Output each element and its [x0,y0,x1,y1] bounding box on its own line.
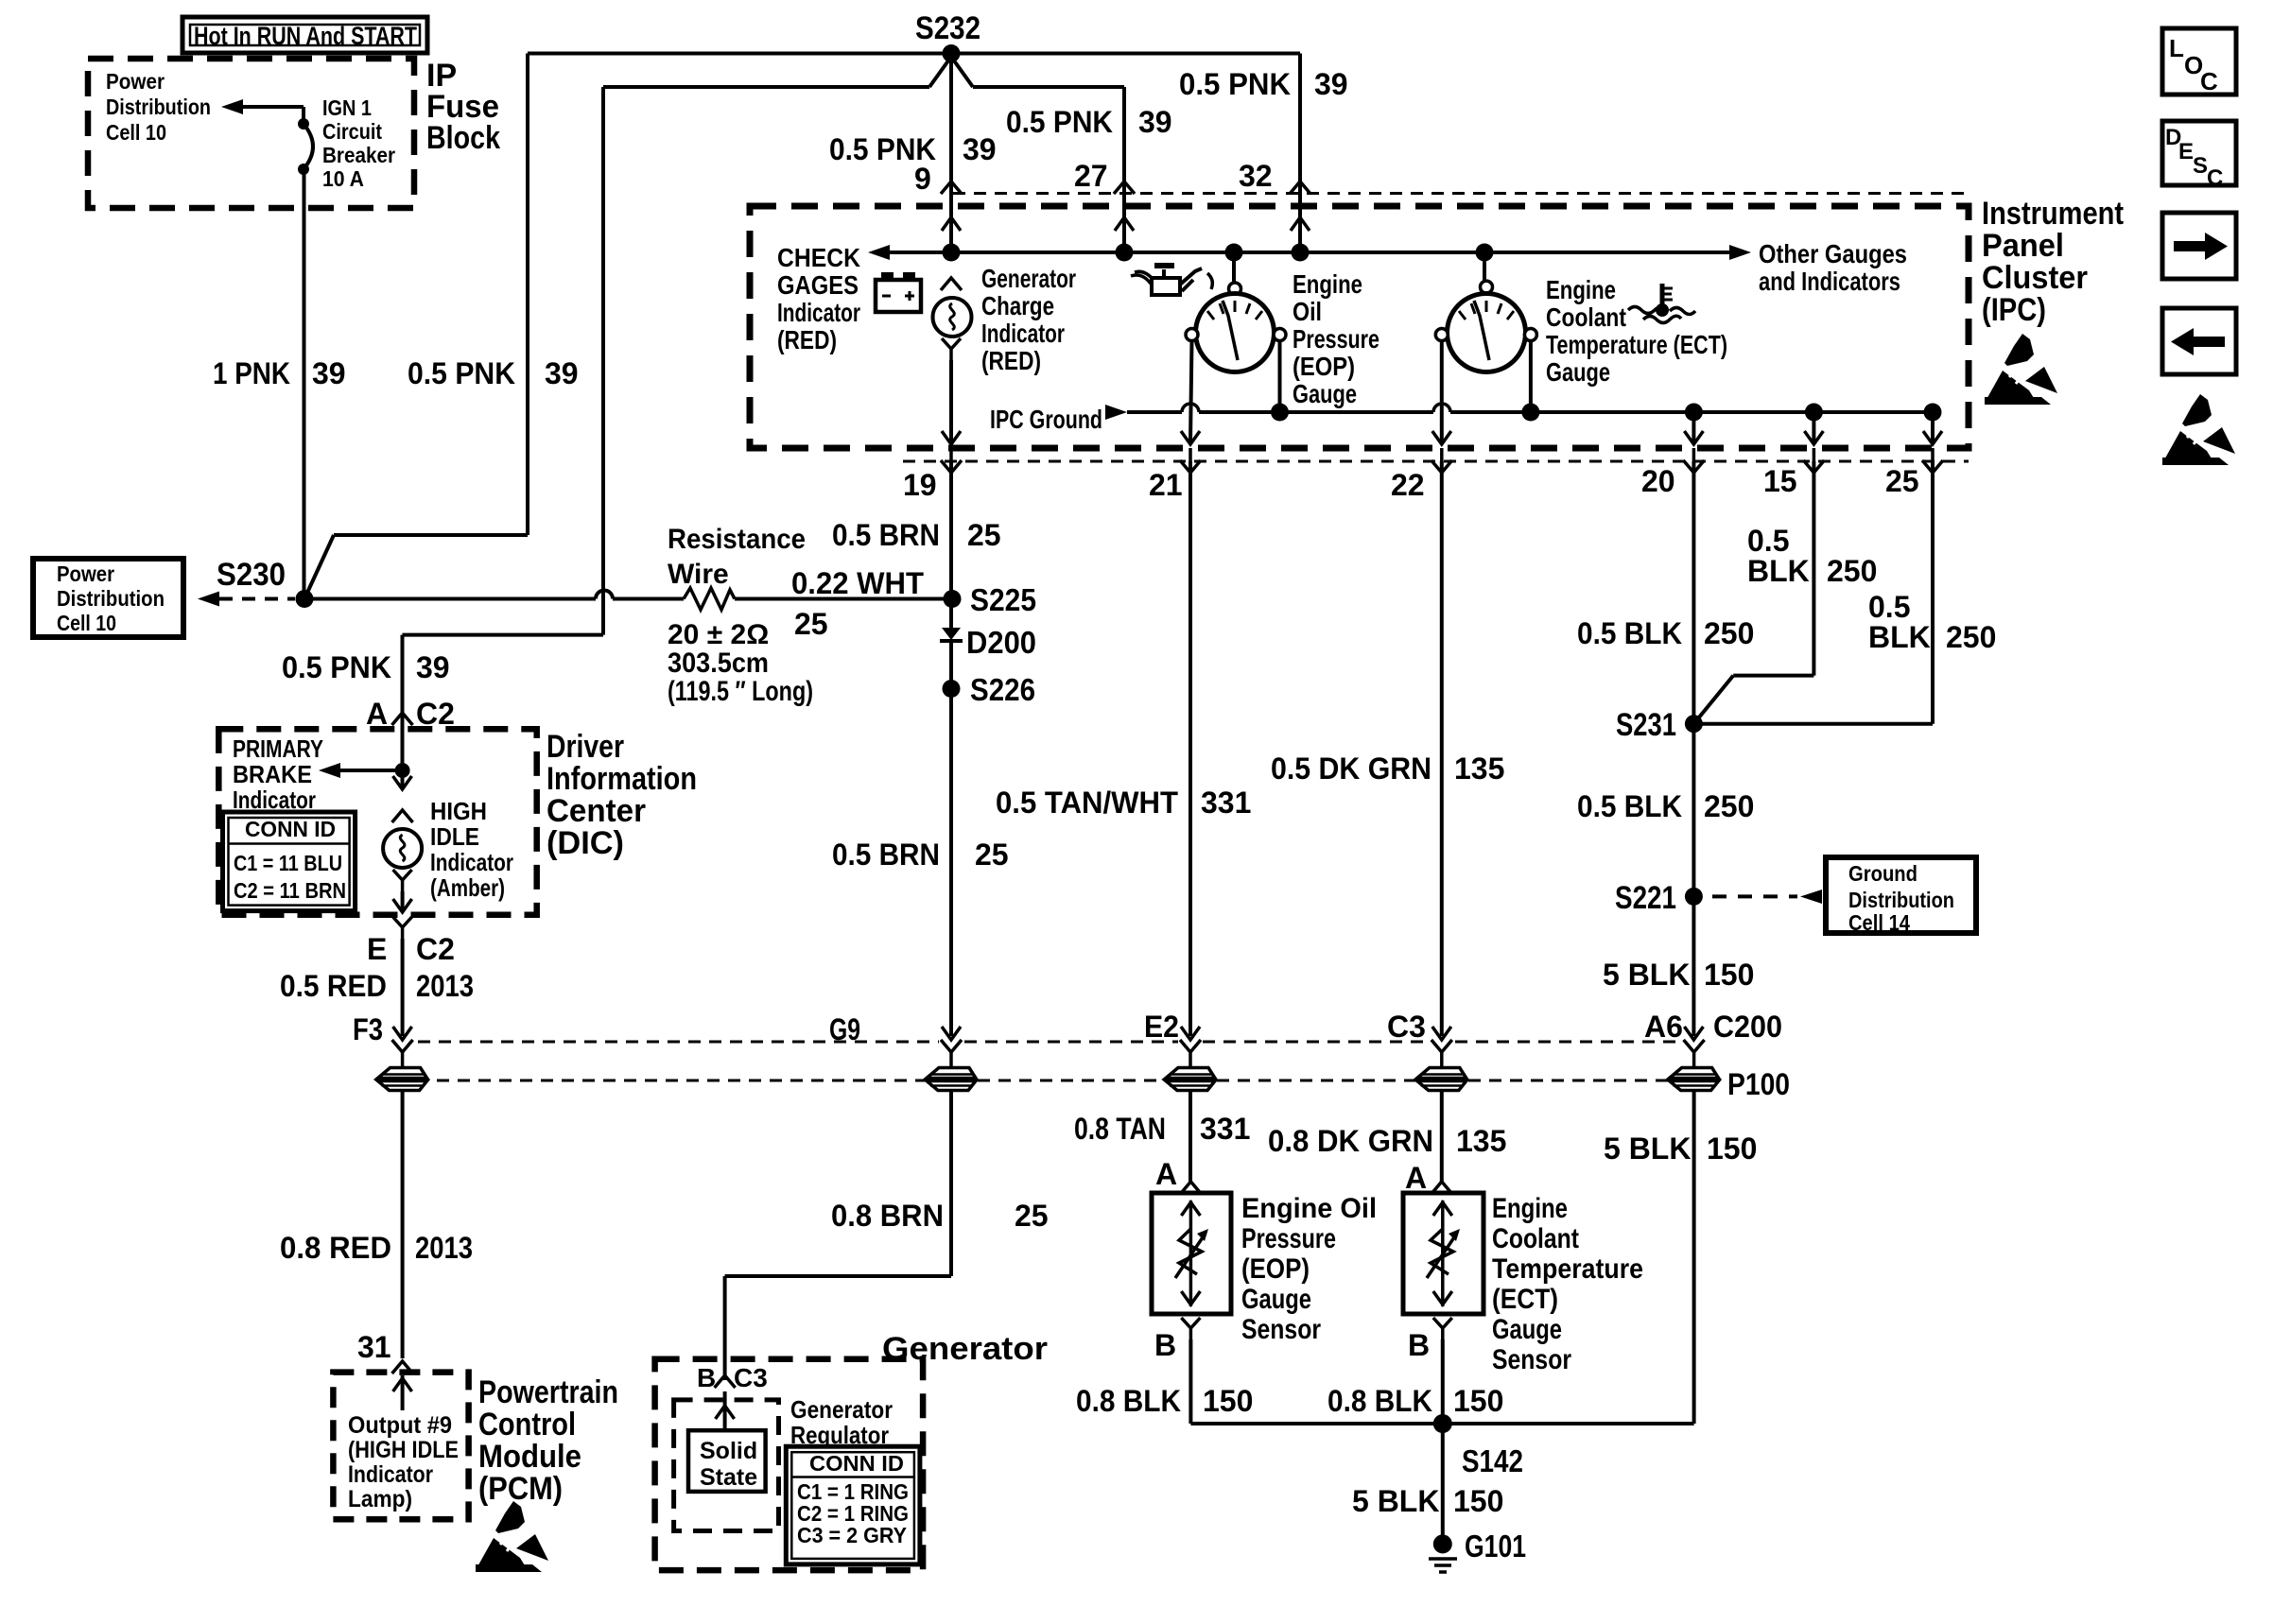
svg-text:C3: C3 [734,1363,768,1392]
svg-text:0.8 BLK: 0.8 BLK [1327,1384,1432,1418]
battery icon (check gages) [876,272,921,312]
connector C200 dashed line [418,1041,1682,1044]
svg-text:G101: G101 [1465,1529,1526,1564]
label 0.5 DK GRN 135 [1271,752,1504,786]
connector chevron A (EOP) [1180,1182,1201,1194]
svg-text:150: 150 [1453,1484,1503,1518]
node bus junction ECT [1476,244,1494,262]
label 0.5 PNK 39 (pin 9) [829,132,997,166]
svg-text:0.5 DK GRN: 0.5 DK GRN [1271,752,1431,786]
svg-text:0.5 PNK: 0.5 PNK [1179,67,1291,101]
label 0.5 BLK 250 (pin 25) [1868,590,1996,654]
svg-text:331: 331 [1201,786,1251,820]
IPC bottom connector dashed line [903,460,1969,463]
label Output #9 HIGH IDLE Indicator Lamp [348,1412,459,1512]
label Engine Oil Pressure (EOP) Gauge [1293,269,1379,408]
wire ground to pin 15 [1804,404,1823,445]
svg-text:E: E [2178,139,2194,164]
svg-text:0.8 TAN: 0.8 TAN [1074,1112,1166,1146]
svg-text:C200: C200 [1713,1010,1782,1044]
svg-text:(HIGH IDLE: (HIGH IDLE [348,1437,459,1463]
svg-text:0.8 BLK: 0.8 BLK [1076,1384,1181,1418]
svg-text:Temperature (ECT): Temperature (ECT) [1546,330,1727,359]
svg-text:State: State [700,1464,757,1491]
svg-text:5 BLK: 5 BLK [1352,1484,1439,1518]
svg-text:(RED): (RED) [981,346,1041,375]
wire 0.5 BRN 25 pin 19 to S225 [949,461,953,599]
wire 0.8 RED 2013 to PCM [401,1090,405,1358]
svg-text:303.5cm: 303.5cm [668,648,769,679]
IPC top connector dashed line [953,192,1969,195]
ECT gauge (IPC) [1435,252,1536,372]
wire EOP gauge left pin to pin 21 [1181,341,1200,445]
label A C2 [366,697,455,731]
wire 0.5 PNK 39 to pin 9 [949,54,953,253]
svg-text:Breaker: Breaker [322,143,395,167]
next-page arrow box [2162,213,2236,279]
wire pin 9 into IPC with up arrow [942,217,961,231]
wire 0.8 BRN 25 to generator [725,1090,951,1380]
label 0.22 WHT 25 [791,566,924,641]
svg-text:IPC Ground: IPC Ground [990,405,1102,434]
svg-text:Other Gauges: Other Gauges [1759,239,1907,268]
svg-text:25: 25 [975,838,1009,872]
svg-text:331: 331 [1200,1112,1250,1146]
svg-text:A: A [366,697,388,731]
connector P100 grommet (A6) [1670,1052,1719,1091]
label Powertrain Control Module (PCM) [478,1374,618,1507]
IP Fuse Block dashed box [88,59,414,208]
svg-text:Gauge: Gauge [1241,1284,1311,1315]
Powertrain Control Module dashed box [333,1373,468,1520]
connector P100 grommet (F3) [378,1052,427,1091]
svg-text:Cell 14: Cell 14 [1848,910,1910,935]
svg-text:A: A [1405,1161,1427,1195]
wire 0.5 TAN/WHT 331 [1181,461,1200,1040]
svg-text:31: 31 [357,1330,391,1364]
svg-text:C3: C3 [1387,1010,1426,1044]
node S230 junction [296,590,314,608]
label Resistance Wire [668,524,806,590]
wire ECT gauge left pin to pin 22 [1432,341,1451,445]
label pin 22 [1391,468,1425,502]
svg-text:0.5 PNK: 0.5 PNK [1006,105,1113,139]
connector chevron B (ECT) [1433,1318,1452,1339]
connector chevron pin 25 [1922,448,1943,473]
svg-text:B: B [697,1363,716,1392]
label pin 31 [357,1330,391,1364]
label resistance value [668,619,813,707]
svg-text:C1 = 11 BLU: C1 = 11 BLU [234,851,342,875]
svg-text:0.8 BRN: 0.8 BRN [831,1199,944,1233]
connector chevron B C3 [715,1375,736,1388]
svg-text:C2: C2 [416,932,455,966]
wire S232 diagonal to left branch [603,57,951,87]
generator charge indicator lamp [933,278,972,444]
svg-text:Generator: Generator [981,264,1076,293]
svg-text:Wire: Wire [668,559,729,590]
label 5 BLK 150 (below P100) [1604,1132,1757,1166]
Engine Oil Pressure EOP Gauge Sensor box [1152,1193,1231,1314]
svg-text:Coolant: Coolant [1546,302,1626,332]
node bus junction pin32 [1292,244,1310,262]
svg-text:0.8 DK GRN: 0.8 DK GRN [1268,1124,1433,1158]
svg-text:S221: S221 [1615,880,1676,916]
label IPC Ground [990,405,1102,434]
svg-text:25: 25 [1885,464,1919,498]
label A6 C200 [1644,1010,1782,1044]
svg-text:27: 27 [1074,159,1108,193]
label Power Distribution Cell 10 (fuse block) [106,69,211,145]
svg-text:0.5 BRN: 0.5 BRN [832,838,940,872]
connector chevron C3 [1431,1040,1452,1052]
ESD symbol under IPC label [1985,334,2057,405]
wire ground to pin 25 [1923,404,1942,445]
svg-text:Gauge: Gauge [1546,357,1610,387]
connector chevron pin 22 [1431,448,1452,473]
node S225 junction [944,582,1037,617]
svg-text:0.5 PNK: 0.5 PNK [282,650,391,684]
svg-text:25: 25 [967,518,1001,552]
connector chevron pin 15 [1803,448,1824,473]
IPC ground bus wire [1105,404,1933,420]
svg-text:Sensor: Sensor [1492,1344,1571,1375]
svg-text:Generator: Generator [790,1395,893,1424]
svg-text:C3 = 2 GRY: C3 = 2 GRY [797,1523,907,1547]
svg-text:Cell 10: Cell 10 [106,120,166,145]
svg-text:(EOP): (EOP) [1293,352,1355,381]
svg-text:Charge: Charge [981,291,1054,320]
connector chevron F3 [392,1040,413,1052]
svg-text:Indicator: Indicator [981,319,1065,348]
svg-text:5 BLK: 5 BLK [1603,958,1690,992]
label 0.8 RED 2013 [280,1231,473,1265]
node bus junction pin9 [943,244,961,262]
label pin 9 [914,162,931,196]
connector P100 grommet (C3) [1417,1052,1466,1091]
svg-text:Block: Block [426,120,500,156]
wire 0.8 BLK 150 (EOP) [1189,1339,1192,1424]
svg-text:C: C [2207,165,2223,191]
label 0.5 PNK 39 (pin 32) [1179,67,1348,101]
svg-text:D200: D200 [966,625,1036,660]
Power Distribution Cell 10 box [33,559,183,637]
connector chevron pin 20 [1683,448,1704,473]
CONN ID box (DIC) [223,812,356,911]
svg-text:(Amber): (Amber) [430,873,505,902]
svg-text:0.5 RED: 0.5 RED [280,969,387,1003]
IPC internal bus wire [889,251,1730,254]
wire into solid state regulator [716,1391,735,1430]
svg-text:22: 22 [1391,468,1425,502]
svg-text:Temperature: Temperature [1492,1253,1643,1285]
svg-text:0.5 TAN/WHT: 0.5 TAN/WHT [996,786,1178,820]
svg-text:(ECT): (ECT) [1492,1284,1558,1315]
wire 5 BLK 150 A6 to S142 [1692,1090,1696,1424]
svg-text:Gauge: Gauge [1492,1314,1562,1345]
connector P100 dashed line [437,1080,1668,1082]
svg-text:L: L [2169,34,2184,62]
label F3 [353,1012,383,1046]
label A (ECT sensor) [1405,1161,1427,1195]
label Engine Coolant Temperature (ECT) Gauge Sensor [1492,1193,1643,1375]
svg-text:B: B [1408,1328,1430,1362]
wire S230 dashed to Power Distribution [198,592,295,607]
svg-text:S225: S225 [970,582,1036,617]
svg-text:0.5 PNK: 0.5 PNK [408,356,515,390]
label 0.5 BRN 25 (upper) [832,518,1001,552]
label box Hot In RUN And START [182,17,427,53]
svg-text:BRAKE: BRAKE [233,760,312,788]
EOP gauge (IPC) [1186,252,1286,372]
label Generator Charge Indicator (RED) [981,264,1076,375]
svg-text:Sensor: Sensor [1241,1314,1321,1345]
svg-text:39: 39 [545,356,579,390]
label 0.5 RED 2013 [280,969,474,1003]
svg-text:0.5 BLK: 0.5 BLK [1577,789,1682,823]
svg-text:Oil: Oil [1293,297,1322,326]
svg-text:39: 39 [1138,105,1172,139]
svg-text:CONN ID: CONN ID [809,1451,904,1476]
svg-text:Power: Power [106,69,165,94]
svg-text:(IPC): (IPC) [1982,292,2046,328]
Generator Regulator inner dashed box [674,1400,779,1531]
wire 0.5 BLK 250 pin 20 to S231 to S221 to A6 [1684,461,1703,1040]
wire pin 32 into IPC [1291,54,1310,253]
Generator dashed box [655,1359,924,1570]
Instrument Panel Cluster dashed box [750,206,1969,448]
svg-text:0.22 WHT: 0.22 WHT [791,566,924,600]
svg-text:Engine: Engine [1293,269,1362,299]
Engine Coolant Temperature ECT Gauge Sensor box [1403,1193,1484,1314]
svg-text:25: 25 [794,607,828,641]
label Engine Coolant Temperature (ECT) Gauge [1546,275,1727,387]
wire 0.5 BLK 250 pin 15 to S231 [1693,461,1813,724]
svg-text:BLK: BLK [1868,620,1931,654]
svg-text:C: C [2200,67,2218,95]
label 0.8 BLK 150 (ECT) [1327,1384,1503,1418]
svg-text:Panel: Panel [1982,228,2064,264]
svg-text:250: 250 [1946,620,1996,654]
svg-text:E2: E2 [1144,1010,1179,1044]
svg-text:0.5 BRN: 0.5 BRN [832,518,940,552]
svg-text:Center: Center [547,793,646,829]
svg-text:C2: C2 [416,697,455,731]
previous-page arrow box [2162,308,2236,374]
label 0.5 PNK 39 (pin 27) [1006,105,1172,139]
label A (EOP sensor) [1155,1157,1177,1191]
svg-text:Circuit: Circuit [322,119,382,144]
label 5 BLK 150 (above A6) [1603,958,1754,992]
node bus junction EOP [1225,244,1243,262]
svg-text:135: 135 [1454,752,1504,786]
label IP Fuse Block [426,58,500,156]
Ground Distribution Cell 14 box [1826,857,1976,935]
svg-text:25: 25 [1015,1199,1049,1233]
svg-text:19: 19 [903,468,937,502]
svg-text:39: 39 [1314,67,1348,101]
svg-text:Output #9: Output #9 [348,1412,452,1439]
label 0.8 BLK 150 (EOP) [1076,1384,1253,1418]
svg-text:135: 135 [1456,1124,1506,1158]
svg-text:IDLE: IDLE [430,822,479,851]
connector chevron pin 27 [1114,181,1135,194]
svg-text:(119.5 ″ Long): (119.5 ″ Long) [668,676,813,707]
svg-text:S226: S226 [970,672,1035,707]
ESD symbol under PCM [476,1501,548,1572]
svg-text:2013: 2013 [415,1231,473,1265]
svg-text:9: 9 [914,162,931,196]
svg-text:Ground: Ground [1848,861,1917,886]
label Instrument Panel Cluster (IPC) [1982,196,2124,328]
svg-text:Engine: Engine [1492,1193,1568,1224]
label pin 15 [1763,464,1797,498]
label E C2 [367,932,455,966]
connector P100 grommet (G9) [927,1052,976,1091]
wire 0.5 BRN 25 S226 to G9 [942,689,961,1041]
svg-text:250: 250 [1704,789,1754,823]
svg-text:PRIMARY: PRIMARY [233,734,323,763]
Solid State box [688,1430,766,1492]
svg-text:0.5: 0.5 [1747,524,1789,558]
connector chevron E2 [1180,1040,1201,1052]
connector chevron pin 31 [392,1361,413,1373]
svg-text:S142: S142 [1462,1443,1523,1478]
svg-text:15: 15 [1763,464,1797,498]
node S232 junction [943,44,961,62]
svg-text:F3: F3 [353,1012,383,1046]
CONN ID box (generator) [786,1446,920,1564]
svg-text:0.5: 0.5 [1868,590,1910,624]
label S232 [915,10,980,46]
wire 0.5 PNK 39 S232 to S230 (left drop x=558) [304,54,528,599]
connector chevron G9 [941,1040,962,1052]
label S230 [217,557,286,593]
label pin 19 [903,468,937,502]
label 0.5 PNK 39 (left drop) [408,356,579,390]
svg-text:(DIC): (DIC) [547,825,624,861]
svg-text:39: 39 [312,356,346,390]
svg-text:0.5 BLK: 0.5 BLK [1577,616,1682,650]
label 0.5 PNK 39 (DIC) [282,650,450,684]
wire EOP gauge right pin to ground [1271,341,1289,422]
svg-text:S: S [2193,153,2208,179]
label 1 PNK 39 [213,356,346,390]
wire IGN1 to Power Distribution arrow [221,99,304,114]
svg-text:Lamp): Lamp) [348,1486,412,1512]
wire pin 27 into IPC [1115,87,1134,252]
svg-text:Distribution: Distribution [106,95,211,119]
ESD symbol right margin [2162,394,2235,465]
label B C3 (generator) [697,1363,768,1392]
label CHECK GAGES Indicator (RED) [777,243,860,354]
node S221 junction [1615,880,1703,916]
label Engine Oil Pressure (EOP) Gauge Sensor [1241,1193,1377,1345]
svg-text:Coolant: Coolant [1492,1223,1579,1254]
svg-text:39: 39 [416,650,450,684]
label Driver Information Center (DIC) [547,729,697,861]
svg-text:Distribution: Distribution [1848,888,1954,912]
label 5 BLK 150 (G101) [1352,1484,1503,1518]
wire 0.5 PNK 39 to pin 27 [1122,87,1126,194]
arrow to CHECK GAGES indicator [868,245,890,260]
label 0.8 TAN 331 [1074,1112,1250,1146]
svg-text:Generator: Generator [882,1331,1048,1367]
svg-text:21: 21 [1149,468,1183,502]
LOC reference box [2162,28,2236,95]
svg-text:(PCM): (PCM) [478,1471,563,1507]
svg-text:150: 150 [1453,1384,1503,1418]
svg-text:20 ± 2Ω: 20 ± 2Ω [668,619,769,650]
label 0.5 BLK 250 (pin 15) [1747,524,1877,588]
label E2 [1144,1010,1179,1044]
wire 5 BLK 150 S142 to G101 [1441,1424,1445,1544]
label Generator [882,1331,1048,1367]
svg-text:Indicator: Indicator [430,848,513,876]
wire 1 PNK 39 breaker to S230 [303,169,306,599]
label pin 21 [1149,468,1183,502]
svg-text:P100: P100 [1727,1067,1790,1101]
svg-text:(EOP): (EOP) [1241,1253,1310,1285]
svg-text:Cluster: Cluster [1982,260,2088,296]
wire into DIC with brake branch [319,729,412,789]
connector chevron pin 21 [1180,448,1201,473]
node bus junction pin27 [1116,244,1134,262]
DESC reference box [2162,121,2236,191]
svg-text:A: A [1155,1157,1177,1191]
wire S230 to resistance wire to S225 [304,588,951,610]
svg-text:250: 250 [1827,554,1877,588]
svg-text:150: 150 [1707,1132,1757,1166]
label Generator Regulator [790,1395,893,1449]
svg-text:Powertrain: Powertrain [478,1374,618,1410]
connector chevron B (EOP) [1181,1318,1200,1339]
wire 0.5 DK GRN 135 [1432,461,1451,1040]
label C3 [1387,1010,1426,1044]
svg-text:(RED): (RED) [777,325,837,354]
label pin 27 [1074,159,1108,193]
svg-text:Engine Oil: Engine Oil [1241,1193,1377,1224]
wire S232 diagonal to right branch [951,57,1124,87]
wire S142 horizontal join [1190,1422,1693,1425]
svg-text:Control: Control [478,1407,576,1443]
svg-text:250: 250 [1704,616,1754,650]
svg-text:Instrument: Instrument [1982,196,2124,232]
svg-text:32: 32 [1239,159,1273,193]
svg-text:Solid: Solid [700,1438,757,1464]
svg-text:Driver: Driver [547,729,624,765]
diode D200 [940,599,1036,661]
wire into PCM [393,1375,412,1410]
svg-text:S230: S230 [217,557,286,593]
svg-text:Indicator: Indicator [348,1461,433,1488]
ground G101 [1429,1529,1526,1572]
svg-text:GAGES: GAGES [777,270,859,300]
label 0.5 BLK 250 (pin 20) [1577,616,1754,650]
connector chevron E C2 exit [393,917,412,939]
svg-text:B: B [1154,1328,1176,1362]
wire 0.5 BLK 250 pin 25 to S231 [1693,461,1933,724]
HIGH IDLE indicator lamp [383,810,422,912]
svg-text:Indicator: Indicator [777,298,860,327]
node S142 junction [1433,1414,1523,1478]
svg-text:1 PNK: 1 PNK [213,356,290,390]
node S231 junction [1616,707,1703,743]
connector chevron A (ECT) [1431,1182,1452,1194]
svg-text:Information: Information [547,761,697,797]
svg-text:Cell 10: Cell 10 [57,611,116,635]
wire 0.8 DK GRN 135 [1440,1090,1444,1182]
